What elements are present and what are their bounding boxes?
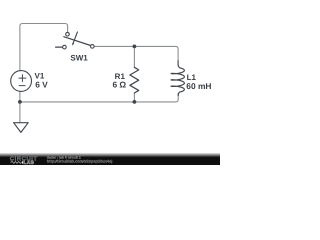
voltage source V1 circle	[11, 71, 32, 92]
svg-text:http:∕∕circuitlab.com∕c∕2npsp2: http:∕∕circuitlab.com∕c∕2npsp26ux4aj	[47, 158, 113, 163]
wire source bottom down to ground	[19, 91, 21, 123]
voltage source plus sign	[19, 75, 26, 82]
switch SW1 common terminal	[91, 45, 95, 49]
voltage source minus sign	[19, 85, 25, 87]
switch SW1 arrowhead	[72, 43, 74, 46]
svg-text:6 V: 6 V	[35, 79, 48, 89]
ground symbol	[14, 123, 29, 133]
node junction dot at resistor top	[133, 45, 137, 49]
svg-text:LAB: LAB	[24, 160, 35, 165]
switch SW1 bottom throw terminal	[63, 45, 67, 49]
wire bottom run	[20, 94, 178, 102]
inductor L1 coil	[171, 61, 184, 96]
watermark logo square bullet	[22, 161, 23, 164]
wire resistor branch top	[133, 46, 135, 67]
svg-text:6 Ω: 6 Ω	[112, 80, 126, 90]
node junction dot at resistor bottom	[133, 100, 137, 104]
svg-text:60 mH: 60 mH	[186, 81, 211, 91]
node junction dot bottom left	[18, 100, 22, 104]
switch SW1 bottom throw stub	[56, 46, 63, 48]
svg-text:SW1: SW1	[70, 53, 88, 62]
watermark logo zigzag	[11, 162, 22, 164]
switch SW1 top throw terminal	[66, 32, 70, 36]
wire top-left from source up and right to switch top throw	[20, 24, 68, 71]
switch SW1 actuator arrow	[73, 32, 77, 43]
switch SW1 lever	[64, 37, 91, 46]
wire resistor branch bottom	[133, 93, 135, 102]
wire from switch common right to top-right corner down to inductor	[94, 46, 178, 61]
resistor R1 zigzag	[130, 67, 139, 93]
